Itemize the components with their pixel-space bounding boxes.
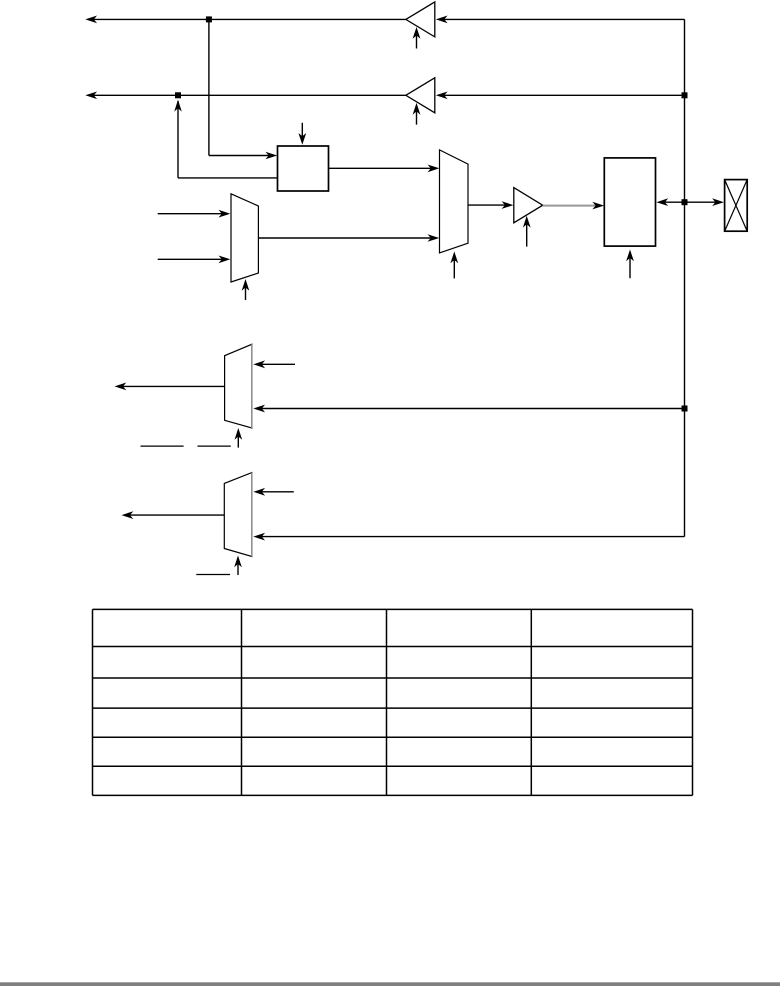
tri-state buffer U2 (lower read buffer)	[406, 78, 435, 113]
label overbar: M3 select signal (right)	[198, 445, 231, 447]
node: junction pin column / M3 input	[682, 406, 688, 412]
wire: pin column vertical net	[684, 19, 686, 536]
node: junction bus line 2 / pin column	[682, 92, 688, 98]
node: junction pad net / pin column	[682, 199, 688, 205]
wire: M3 input A (stub)	[253, 360, 295, 368]
label overbar: M4 select signal	[196, 574, 230, 576]
wire: U1 input from pin node	[436, 16, 685, 24]
wire: M3 input B from pin column	[253, 405, 684, 413]
wire: M4 input B from pin column	[253, 533, 684, 541]
wire: U3 output to I/O cell (grey net)	[543, 202, 604, 210]
wire: REG1 feedback to read-bus line 2	[174, 100, 277, 178]
wire: read-bus line 1 (left segment to data bus)	[85, 16, 406, 24]
register REG1 (write latch)	[278, 146, 329, 191]
buffer U3 (output driver)	[514, 188, 543, 223]
wire: M4 output to read bus	[122, 511, 225, 519]
wire: write data from bus junction into REG1	[209, 19, 277, 159]
wire: M4 input A (stub)	[253, 488, 293, 496]
wire: M3 output to read bus	[115, 383, 225, 391]
tri-state buffer U1 (upper read buffer)	[406, 2, 435, 37]
wire: M1 select	[242, 279, 250, 300]
wire: U2 enable	[413, 103, 421, 125]
wire: REG1 clock (top)	[298, 123, 306, 145]
wire: M4 select	[234, 556, 242, 576]
wire: REG1 output to mux M2	[329, 165, 440, 173]
wire: M1 input B	[158, 256, 231, 264]
wire: bidirectional pad connection	[656, 198, 724, 206]
wire: U2 input from pin node	[436, 92, 685, 100]
wire: U1 enable	[413, 27, 421, 49]
mux M3 (read-back select upper)	[225, 344, 252, 428]
mux M1 (input select)	[231, 194, 258, 282]
node: junction on read-bus line 1	[206, 16, 212, 22]
node: junction bus line 2 / feedback	[175, 92, 181, 98]
wire: M1 input A	[158, 210, 231, 218]
pad P1 (bond pad)	[725, 180, 748, 232]
wire: U4 control (bottom)	[626, 250, 634, 279]
mux M4 (read-back select lower)	[224, 473, 252, 557]
block U4 (pad driver / input stage)	[604, 158, 655, 246]
label overbar: M3 select signal (left)	[141, 445, 184, 447]
wire: M2 output to driver U3	[468, 201, 513, 209]
wire: M2 select	[450, 252, 458, 279]
footer rule (grey page divider)	[0, 982, 780, 986]
table: function table grid (4 cols x 6 rows, empty)	[93, 609, 693, 795]
wire: M3 select	[235, 428, 243, 448]
wire: U3 enable	[523, 216, 531, 247]
wire: read-bus line 2 (left segment)	[85, 92, 406, 100]
wire: M1 output to mux M2	[258, 234, 439, 242]
mux M2 (output data select)	[440, 150, 469, 253]
